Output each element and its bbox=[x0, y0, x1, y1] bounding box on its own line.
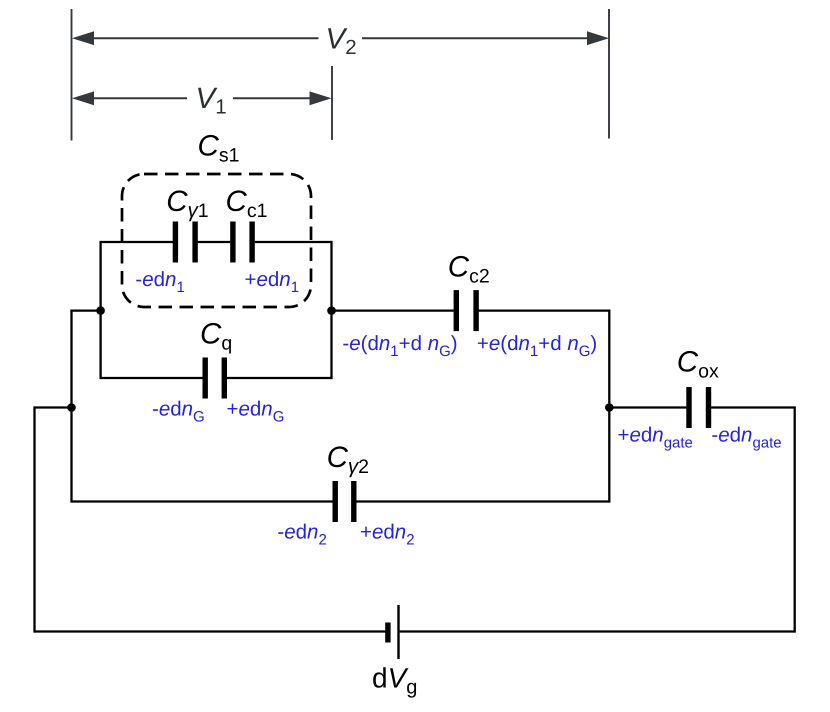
node V2-right reference bar bbox=[608, 9, 610, 139]
node dot left row2 bbox=[96, 306, 105, 315]
wire Cox branch left bbox=[609, 406, 686, 408]
capacitor Cq bbox=[205, 358, 224, 399]
wire mid-left column bbox=[70, 309, 72, 502]
wire outer-right column bbox=[794, 406, 796, 632]
capacitor C_gamma2 bbox=[335, 481, 354, 522]
wire Cox branch right bbox=[711, 406, 795, 408]
capacitor C_gamma1 bbox=[175, 222, 195, 263]
capacitor Cc2 bbox=[456, 290, 476, 331]
wire left column upper bbox=[99, 241, 101, 379]
battery dVg short plate bbox=[385, 623, 390, 643]
dashed box Cs1 bbox=[122, 174, 311, 307]
wire right column upper bbox=[330, 241, 332, 379]
dimension arrow V1 bbox=[72, 91, 332, 105]
wire bottom left bbox=[35, 630, 386, 632]
wire left stub row2 bbox=[72, 309, 101, 311]
battery dVg long plate bbox=[397, 605, 399, 659]
capacitor Cc1 bbox=[233, 222, 252, 263]
wire top branch left bbox=[101, 241, 173, 243]
node V1-right reference bar bbox=[331, 66, 333, 140]
wire Cc2 branch right bbox=[479, 309, 610, 311]
wire Cq branch left bbox=[101, 377, 203, 379]
wire mid-right column bbox=[608, 309, 610, 502]
node V-left reference bar bbox=[71, 9, 73, 141]
dimension arrow V2 bbox=[72, 31, 609, 45]
node dot right row2 bbox=[327, 306, 336, 315]
wire C_gamma2 branch right bbox=[356, 500, 609, 502]
wire Cc2 branch left bbox=[332, 309, 454, 311]
wire between C_gamma1 and Cc1 bbox=[198, 241, 231, 243]
wire outer-left column bbox=[33, 406, 35, 632]
wire C_gamma2 branch left bbox=[72, 500, 333, 502]
wire Cq branch right bbox=[227, 377, 332, 379]
node dot right row4 bbox=[605, 403, 614, 412]
capacitor Cox bbox=[689, 387, 709, 428]
wire top branch right bbox=[255, 241, 332, 243]
wire left stub row4 bbox=[35, 406, 72, 408]
wire bottom right bbox=[400, 630, 795, 632]
node dot left row4 bbox=[67, 403, 76, 412]
